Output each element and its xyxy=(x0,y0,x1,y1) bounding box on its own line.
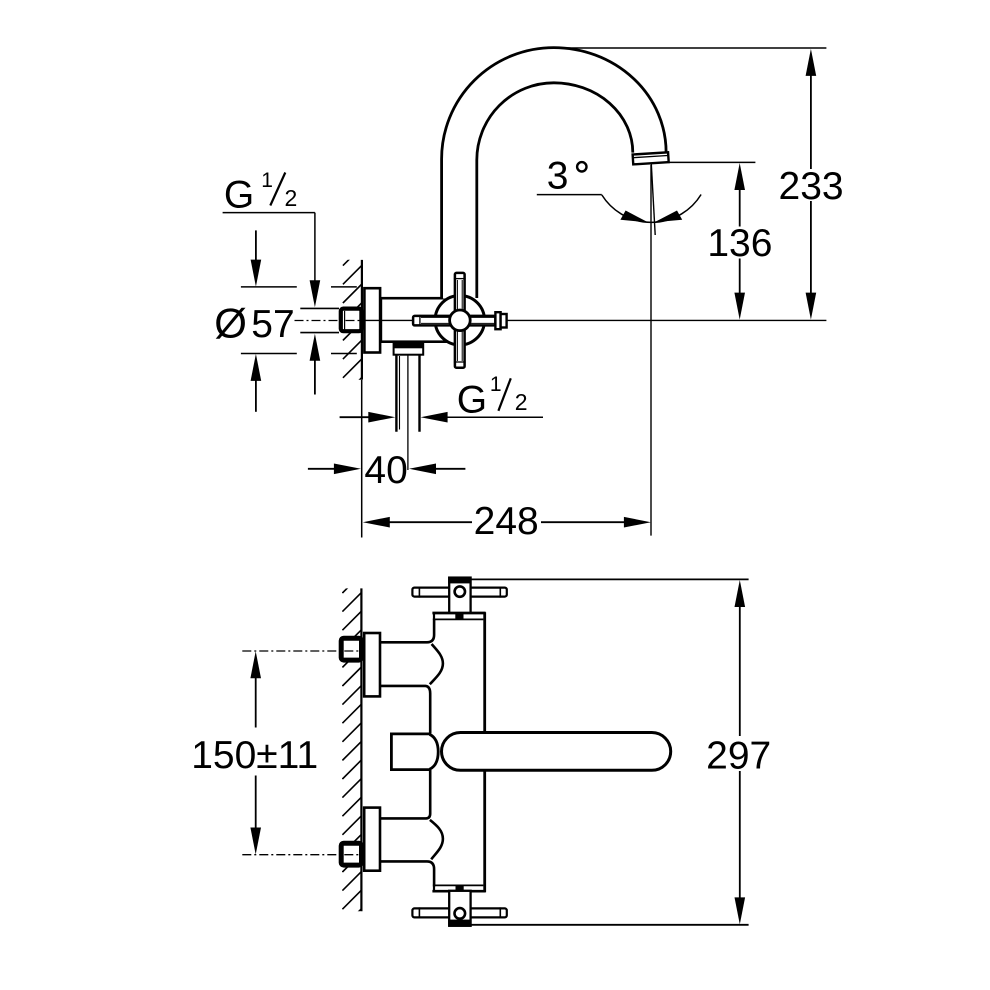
svg-text:248: 248 xyxy=(474,500,539,543)
svg-text:G: G xyxy=(457,378,487,421)
svg-text:G: G xyxy=(224,173,254,216)
svg-text:1: 1 xyxy=(261,169,273,192)
svg-text:Ø: Ø xyxy=(214,299,247,346)
svg-text:40: 40 xyxy=(364,449,407,492)
svg-text:150±11: 150±11 xyxy=(191,734,318,777)
svg-text:297: 297 xyxy=(706,735,771,778)
svg-text:3: 3 xyxy=(547,155,569,198)
svg-text:1: 1 xyxy=(490,373,502,396)
svg-text:2: 2 xyxy=(285,185,298,211)
svg-text:57: 57 xyxy=(251,303,294,346)
svg-text:2: 2 xyxy=(515,389,528,415)
